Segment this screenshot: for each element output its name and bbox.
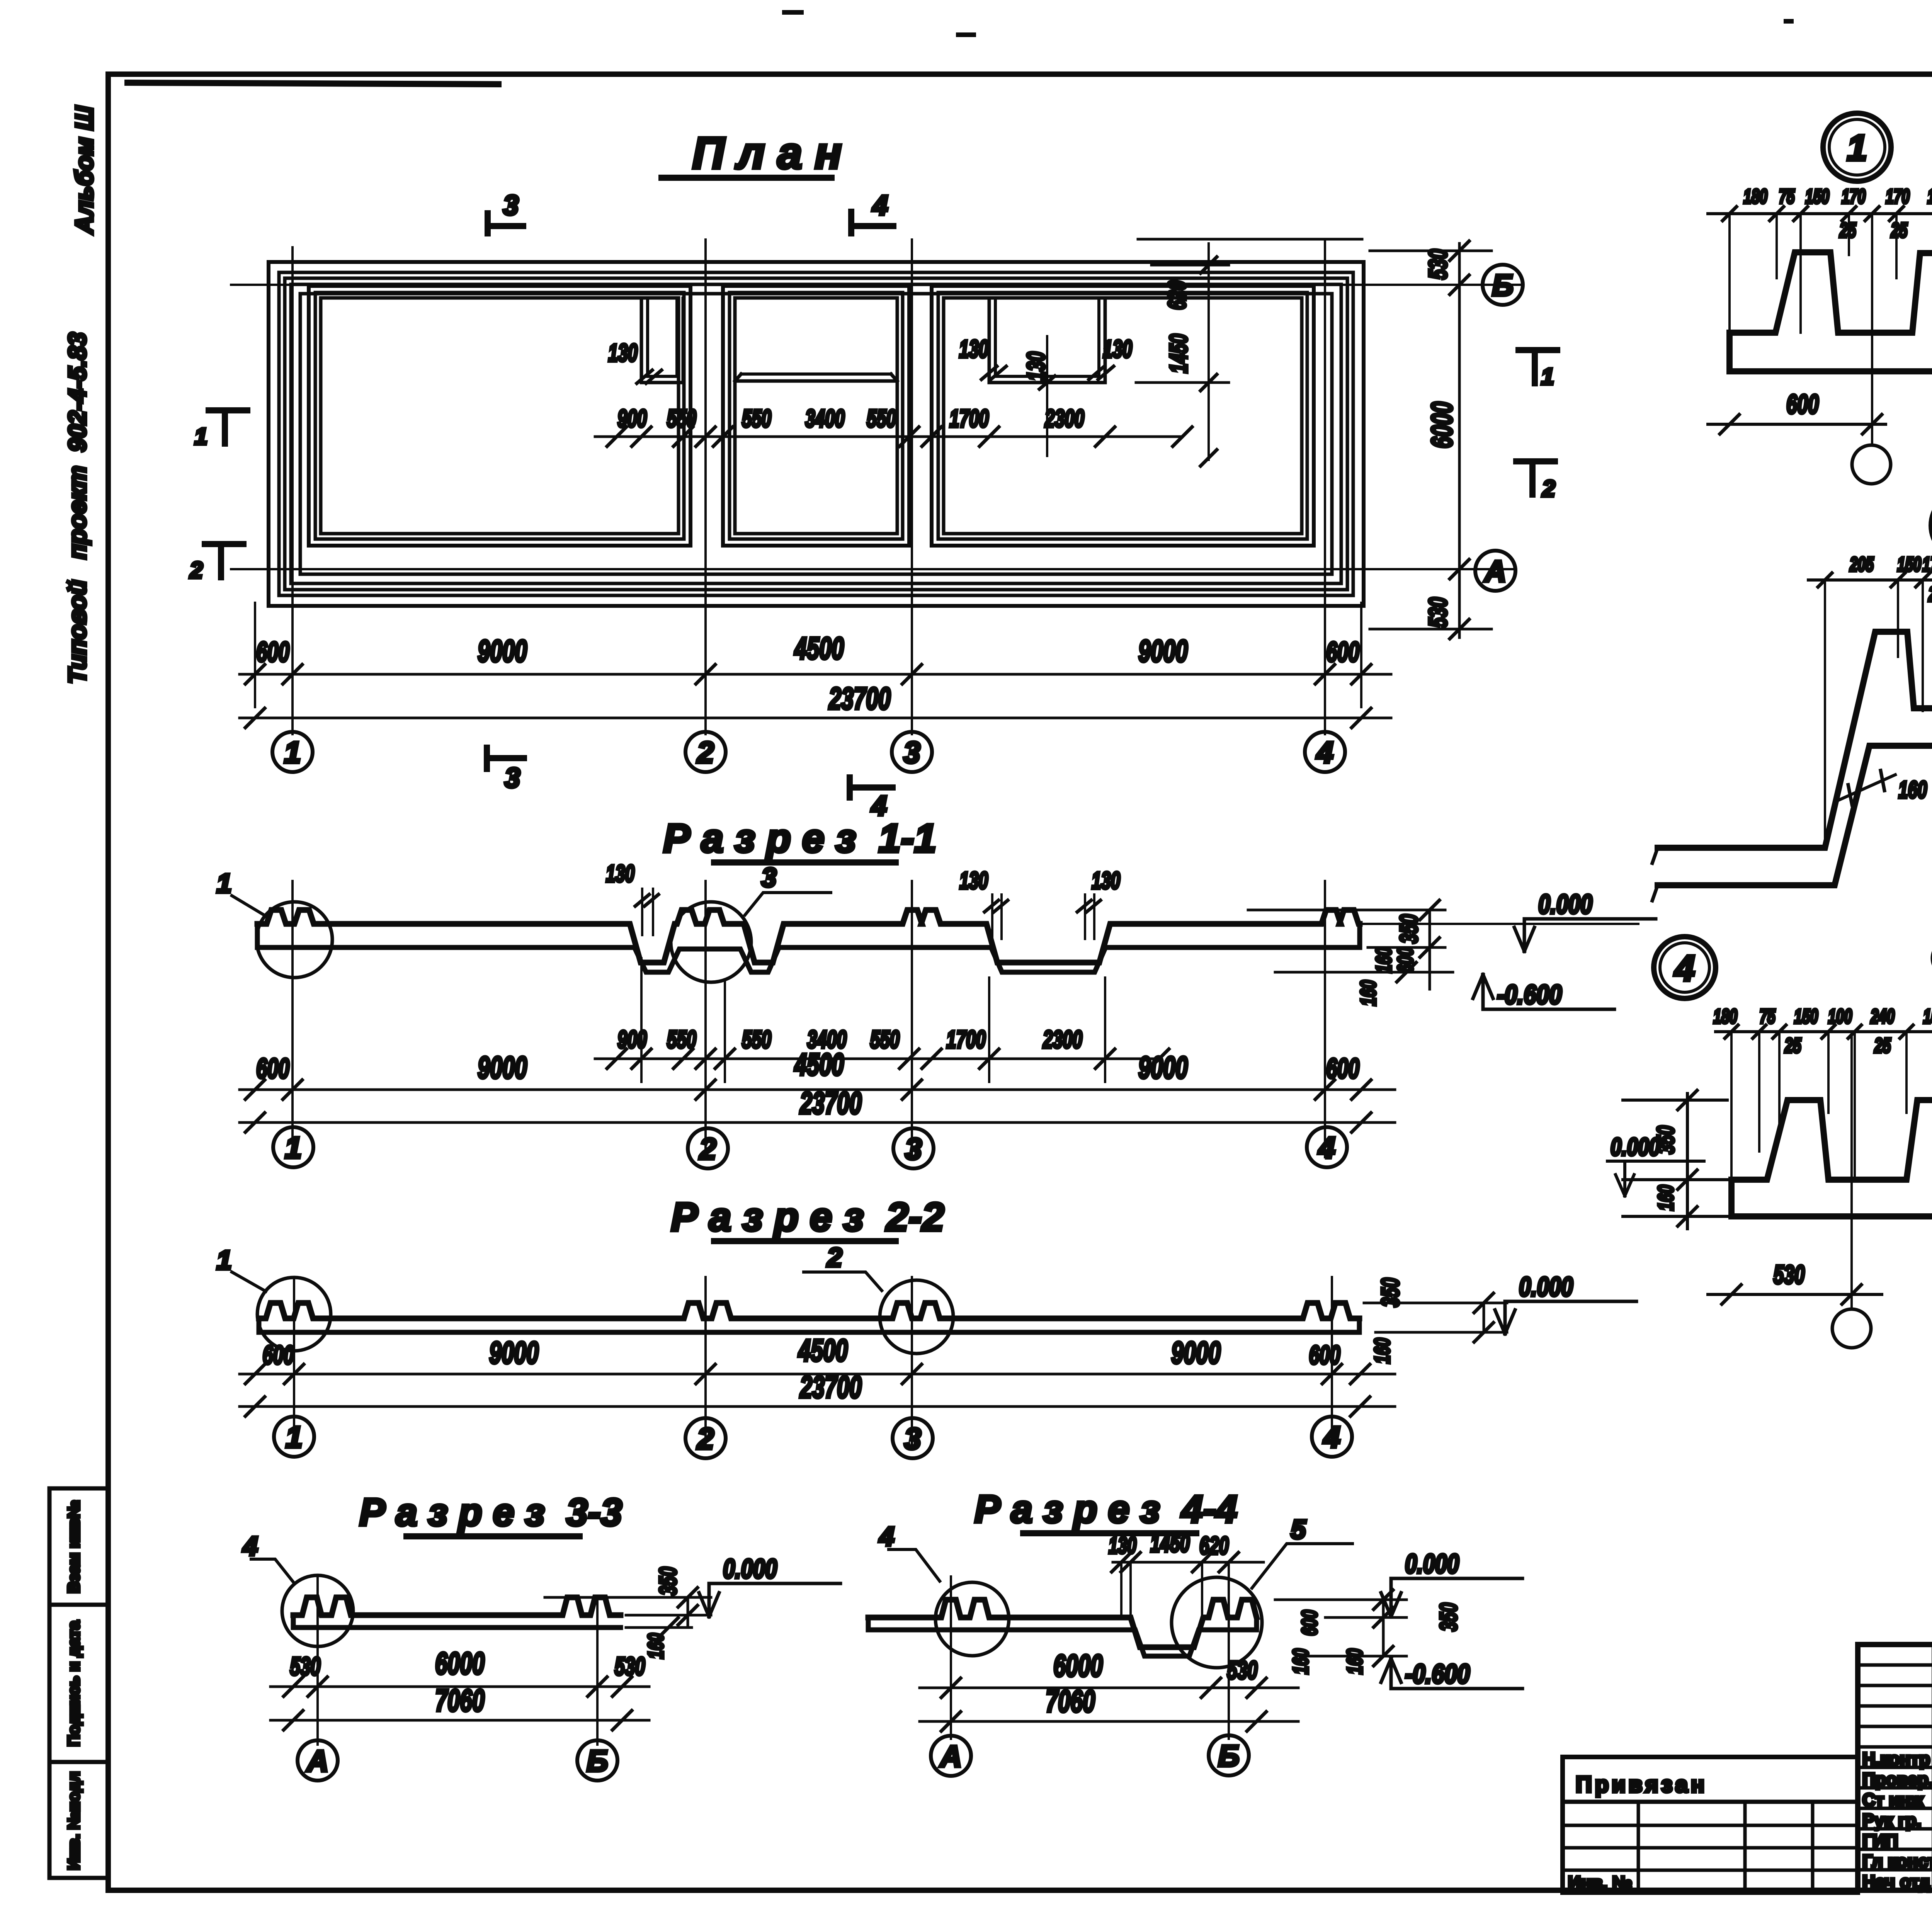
- svg-text:205: 205: [1849, 553, 1874, 576]
- svg-text:6000: 6000: [435, 1646, 485, 1680]
- svg-text:350: 350: [1395, 914, 1423, 944]
- svg-text:Р а з р е з 4-4: Р а з р е з 4-4: [975, 1488, 1237, 1531]
- svg-text:600: 600: [1393, 947, 1417, 973]
- svg-text:130: 130: [1022, 352, 1050, 381]
- grid line 4: [1324, 240, 1326, 734]
- svg-text:900: 900: [617, 405, 647, 432]
- detail 4 left dim stack: [1623, 1099, 1727, 1102]
- svg-text:1: 1: [1541, 364, 1554, 389]
- svg-text:Ст инж: Ст инж: [1862, 1790, 1923, 1810]
- svg-text:150: 150: [1897, 553, 1921, 576]
- left stamp column boxes: [49, 1488, 108, 1878]
- svg-text:160: 160: [1370, 1338, 1394, 1364]
- svg-text:600: 600: [256, 637, 289, 668]
- svg-text:25: 25: [1874, 1034, 1891, 1057]
- detail 3 pedestal inner void: [1658, 746, 1932, 885]
- section mark 2Т (left): [205, 544, 243, 577]
- svg-text:1: 1: [217, 1245, 232, 1275]
- plan grid circles 1-4: [272, 732, 313, 772]
- svg-text:150: 150: [1794, 1005, 1818, 1028]
- svg-text:180: 180: [1743, 185, 1767, 208]
- svg-text:-0.600: -0.600: [1405, 1659, 1470, 1689]
- svg-text:1: 1: [286, 1420, 302, 1454]
- svg-text:620: 620: [1199, 1532, 1229, 1560]
- detail 3 pedestal profile (outer): [1658, 632, 1932, 848]
- section cut mark 4 (top): [851, 212, 893, 233]
- svg-text:23700: 23700: [828, 681, 891, 716]
- svg-text:Типовой проект 902-4-5.83: Типовой проект 902-4-5.83: [63, 332, 91, 684]
- svg-text:3: 3: [503, 190, 519, 221]
- svg-text:3: 3: [505, 763, 520, 794]
- svg-text:3400: 3400: [805, 405, 845, 432]
- title block outer: [1858, 1645, 1932, 1890]
- svg-text:530: 530: [1774, 1260, 1805, 1289]
- svg-text:А: А: [1484, 554, 1506, 588]
- svg-text:350: 350: [655, 1567, 682, 1595]
- svg-text:4: 4: [1674, 948, 1695, 989]
- svg-text:4500: 4500: [794, 631, 844, 665]
- svg-text:25: 25: [1839, 219, 1856, 242]
- svg-text:100: 100: [1828, 1005, 1852, 1028]
- svg-text:3: 3: [762, 862, 777, 893]
- section 2-2 slab profile: [259, 1303, 1359, 1318]
- svg-text:130: 130: [1092, 867, 1120, 894]
- section 1-1 total 23700: [240, 1121, 1395, 1124]
- section 4-4 dims: [920, 1687, 1298, 1689]
- svg-text:170: 170: [1886, 185, 1910, 208]
- section 4-4 top dims 130/1450/620: [1113, 1561, 1264, 1564]
- svg-text:9000: 9000: [489, 1335, 539, 1370]
- detail circle callout 1 on left upstand: [257, 902, 332, 978]
- detail 4 axis: [1850, 1032, 1853, 1309]
- detail 3 slope thickness labels 160: [1839, 775, 1895, 800]
- svg-text:130: 130: [959, 335, 988, 363]
- svg-text:240: 240: [1870, 1005, 1895, 1028]
- svg-text:Привязан: Привязан: [1576, 1772, 1708, 1797]
- svg-text:1: 1: [1847, 128, 1867, 168]
- svg-text:Провер.: Провер.: [1862, 1769, 1932, 1789]
- svg-text:160: 160: [643, 1633, 668, 1659]
- svg-text:1700: 1700: [946, 1026, 986, 1053]
- svg-text:Нач отд: Нач отд: [1862, 1872, 1930, 1892]
- plan compartment 1 (left tank) nested rects: [309, 286, 690, 546]
- detail circle callout 2 at grid 3: [880, 1280, 953, 1354]
- plan inner dimension line: [595, 435, 1182, 438]
- svg-text:530: 530: [615, 1652, 645, 1680]
- svg-text:160: 160: [1653, 1185, 1678, 1211]
- svg-text:4: 4: [1316, 735, 1333, 769]
- detail circle callout 1 (left): [257, 1277, 331, 1351]
- detail 1 top dimension line: [1708, 212, 1932, 215]
- svg-text:Инв. №: Инв. №: [1568, 1872, 1632, 1893]
- notch in compartment 1 top-right: [641, 298, 683, 383]
- svg-text:75: 75: [1760, 1005, 1776, 1028]
- section 4-4 grid verticals: [950, 1577, 952, 1739]
- section 2-2 grid circles: [274, 1417, 314, 1457]
- section 3-3 dims: [270, 1685, 649, 1688]
- svg-text:600: 600: [1786, 389, 1819, 419]
- svg-text:Взам инв№: Взам инв№: [65, 1500, 83, 1594]
- detail 1 bottom dim 600: [1708, 423, 1886, 426]
- svg-text:25: 25: [1891, 219, 1908, 242]
- svg-text:3: 3: [905, 1132, 922, 1166]
- svg-text:9000: 9000: [478, 1050, 527, 1085]
- svg-text:130: 130: [608, 339, 638, 367]
- svg-text:530: 530: [1423, 597, 1452, 628]
- svg-text:550: 550: [870, 1026, 900, 1053]
- svg-text:4: 4: [242, 1531, 258, 1561]
- svg-text:4: 4: [1323, 1420, 1340, 1454]
- svg-text:130: 130: [1109, 1532, 1136, 1558]
- svg-text:550: 550: [667, 1026, 696, 1053]
- detail 1 extension verticals: [1728, 214, 1731, 333]
- detail circle callout 3 at grid 2: [671, 902, 751, 982]
- svg-text:4500: 4500: [794, 1047, 844, 1082]
- plan right vertical dimension line: [1458, 243, 1461, 638]
- svg-text:Р а з р е з 3-3: Р а з р е з 3-3: [359, 1491, 622, 1534]
- svg-text:ГИП: ГИП: [1862, 1831, 1898, 1851]
- svg-text:2: 2: [699, 1132, 716, 1166]
- svg-text:9000: 9000: [1138, 634, 1188, 668]
- section 3-3 grid circles А Б: [298, 1740, 338, 1781]
- grid circle А: [1475, 551, 1515, 591]
- svg-text:0.000: 0.000: [1405, 1549, 1459, 1579]
- notch in compartment 3 top-middle: [989, 298, 1105, 383]
- grid line Б (horizontal axis): [231, 284, 1522, 286]
- section 1-1 slab underside: [257, 947, 1360, 972]
- svg-text:0.000: 0.000: [1538, 889, 1592, 919]
- svg-text:6000: 6000: [1053, 1648, 1103, 1683]
- svg-text:4: 4: [879, 1521, 895, 1551]
- svg-text:1: 1: [284, 735, 301, 769]
- plan compartment 2 (middle) nested rects: [723, 286, 909, 546]
- svg-text:160: 160: [1371, 947, 1396, 973]
- svg-text:23700: 23700: [799, 1086, 862, 1120]
- detail 4 top dimension line: [1716, 1030, 1932, 1033]
- svg-text:1: 1: [285, 1131, 301, 1165]
- grid line 2: [704, 240, 707, 734]
- svg-text:Подпись и дата: Подпись и дата: [65, 1621, 83, 1747]
- svg-text:620: 620: [1163, 281, 1191, 310]
- svg-text:550: 550: [742, 405, 771, 432]
- svg-text:130: 130: [959, 867, 988, 894]
- detail 3 top dimension line: [1808, 578, 1932, 582]
- grid line 3: [911, 240, 913, 734]
- svg-text:6000: 6000: [1426, 402, 1459, 449]
- svg-text:4500: 4500: [798, 1333, 848, 1367]
- section cut mark 4 (bottom): [850, 777, 893, 798]
- svg-text:2: 2: [696, 735, 714, 769]
- svg-text:9000: 9000: [1138, 1050, 1188, 1085]
- title block horizontal rows (left part): [1858, 1663, 1932, 1667]
- section 4-4 grid circles А Б: [931, 1736, 971, 1776]
- section 1-1 grid verticals: [291, 881, 294, 1157]
- section 3-3 grid verticals: [316, 1576, 319, 1745]
- svg-text:0.000: 0.000: [723, 1554, 777, 1584]
- section 4-4 right rotated dims: [1275, 1599, 1406, 1601]
- svg-text:350: 350: [1376, 1278, 1404, 1307]
- svg-text:Н.контр: Н.контр: [1862, 1749, 1930, 1769]
- svg-text:7060: 7060: [1046, 1684, 1095, 1718]
- notch in compartment 2 (full-width recess): [735, 374, 897, 381]
- svg-text:170: 170: [1922, 553, 1932, 576]
- svg-text:1450: 1450: [1150, 1529, 1190, 1557]
- svg-text:160: 160: [1898, 777, 1927, 803]
- svg-text:530: 530: [290, 1652, 321, 1680]
- svg-text:3: 3: [903, 735, 920, 769]
- svg-text:150: 150: [1805, 185, 1829, 208]
- grid circle Б: [1483, 265, 1523, 305]
- svg-text:0.000: 0.000: [1519, 1272, 1573, 1302]
- svg-text:Р а з р е з 2-2: Р а з р е з 2-2: [671, 1195, 944, 1240]
- section 2-2 dims row: [240, 1373, 1395, 1376]
- svg-text:-0.600: -0.600: [1497, 980, 1562, 1010]
- scan speck top: [784, 12, 1791, 35]
- svg-text:Гл конст: Гл конст: [1862, 1851, 1932, 1871]
- svg-text:130: 130: [1103, 335, 1132, 363]
- svg-text:4: 4: [872, 190, 888, 221]
- svg-text:А: А: [306, 1744, 328, 1778]
- plan compartment 3 (right tank) nested rects: [932, 286, 1314, 546]
- svg-text:3: 3: [904, 1422, 921, 1456]
- svg-text:75: 75: [1779, 185, 1795, 208]
- svg-text:550: 550: [867, 405, 896, 432]
- svg-text:2300: 2300: [1043, 1026, 1082, 1053]
- привязан table: [1563, 1757, 1858, 1893]
- svg-text:9000: 9000: [478, 634, 527, 668]
- svg-text:170: 170: [1842, 185, 1866, 208]
- svg-text:160: 160: [1356, 980, 1380, 1006]
- svg-text:1: 1: [217, 868, 232, 898]
- svg-text:4: 4: [1318, 1131, 1335, 1165]
- detail circle label 4: [1654, 937, 1716, 998]
- detail 4 profile: [1731, 1100, 1932, 1180]
- section 4-4 slab profile with pit: [868, 1600, 1257, 1647]
- svg-text:160: 160: [1288, 1649, 1313, 1675]
- detail circle callout 5 (right, at pit edge): [1172, 1577, 1262, 1668]
- section 3-3 slab profile: [293, 1597, 621, 1615]
- svg-text:Б: Б: [1218, 1739, 1239, 1773]
- svg-text:600: 600: [1326, 637, 1359, 668]
- svg-text:Альбом Ш: Альбом Ш: [70, 105, 98, 235]
- svg-text:150: 150: [1927, 185, 1932, 208]
- detail 4 extension verticals: [1730, 1032, 1733, 1180]
- svg-text:1: 1: [194, 423, 207, 449]
- plan bottom dimension row 600/9000/4500/9000/600: [240, 673, 1391, 676]
- detail 3 extension verticals: [1824, 580, 1826, 846]
- svg-text:600: 600: [263, 1340, 294, 1370]
- detail 1 profile: slab with two big trapezoid upstands: [1730, 252, 1932, 333]
- section cut mark 3 (bottom): [487, 748, 524, 769]
- section cut mark 3 (top): [488, 213, 523, 233]
- svg-text:23700: 23700: [799, 1370, 862, 1404]
- detail circle label 1: [1823, 113, 1891, 181]
- grid line А (horizontal axis): [231, 568, 1514, 570]
- detail circle label 3: [1931, 492, 1932, 560]
- svg-text:Рук гр.: Рук гр.: [1862, 1810, 1921, 1830]
- svg-text:600: 600: [256, 1053, 289, 1084]
- section 1-1 axis dimension row 600/9000/4500/9000/600: [240, 1088, 1395, 1091]
- svg-text:Б: Б: [1492, 268, 1513, 302]
- svg-text:П л а н: П л а н: [692, 128, 842, 178]
- svg-text:130: 130: [606, 861, 634, 887]
- svg-text:2: 2: [189, 557, 202, 583]
- svg-text:2: 2: [696, 1422, 714, 1456]
- plan total 23700: [240, 717, 1391, 719]
- svg-text:160: 160: [1342, 1649, 1367, 1675]
- detail circle callout 4: [282, 1575, 353, 1646]
- svg-text:600: 600: [1309, 1340, 1340, 1370]
- svg-text:530: 530: [1423, 249, 1452, 279]
- section 1-1 slab profile (top surface with upstands and recesses): [257, 910, 1360, 963]
- section 1-1 inner dimension row: [595, 1058, 1159, 1060]
- svg-text:350: 350: [1435, 1603, 1462, 1631]
- svg-text:1700: 1700: [949, 405, 989, 432]
- svg-text:7060: 7060: [435, 1683, 485, 1718]
- svg-text:0.000: 0.000: [1611, 1133, 1660, 1161]
- svg-text:2300: 2300: [1044, 405, 1084, 432]
- mark Т1: [1519, 350, 1557, 383]
- svg-text:600: 600: [1326, 1053, 1359, 1084]
- svg-text:550: 550: [742, 1026, 771, 1053]
- svg-text:600: 600: [1297, 1610, 1321, 1636]
- svg-text:9000: 9000: [1171, 1335, 1221, 1370]
- svg-text:Инв. №подл: Инв. №подл: [65, 1771, 83, 1870]
- svg-text:А: А: [939, 1739, 962, 1773]
- svg-text:180: 180: [1713, 1005, 1737, 1028]
- svg-text:1450: 1450: [1165, 334, 1192, 373]
- svg-text:25: 25: [1928, 583, 1932, 606]
- svg-text:2: 2: [1542, 476, 1555, 502]
- plan outer slab nested rectangles: [269, 262, 1364, 606]
- svg-text:530: 530: [1227, 1656, 1258, 1684]
- section 1-1 grid circles: [273, 1127, 313, 1167]
- section mark 1Т (left): [209, 410, 247, 444]
- grid line 1 (vertical axis): [291, 247, 294, 734]
- detail 1 axis circle: [1852, 445, 1891, 484]
- detail 4 bottom dim 530: [1708, 1293, 1882, 1296]
- svg-text:5: 5: [1291, 1514, 1306, 1544]
- svg-text:25: 25: [1784, 1034, 1801, 1057]
- section 2-2 grid verticals: [293, 1277, 295, 1447]
- mark Т2: [1516, 461, 1555, 495]
- title block verticals (staff columns): [1932, 1645, 1932, 1890]
- detail circle callout 4 (left): [935, 1582, 1009, 1656]
- svg-text:150: 150: [1923, 1005, 1932, 1028]
- svg-text:2: 2: [827, 1242, 842, 1272]
- top extension line: [1138, 238, 1362, 241]
- svg-text:550: 550: [667, 405, 696, 432]
- svg-text:Р а з р е з 1-1: Р а з р е з 1-1: [663, 816, 936, 861]
- svg-text:Б: Б: [587, 1744, 608, 1778]
